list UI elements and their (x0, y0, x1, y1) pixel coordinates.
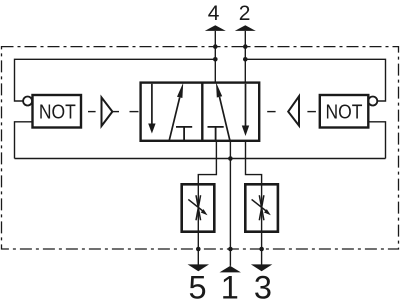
valve V1 body (5/2-way) (141, 83, 260, 141)
valve left chamber plugged port T (176, 127, 192, 141)
pilot wire valve to right amplifier (dashed) (267, 111, 275, 113)
left pilot amplifier triangle (102, 97, 113, 126)
right NOT element U2 (320, 95, 369, 128)
left NOT input circle (23, 97, 32, 106)
port 4 arrow (205, 25, 226, 31)
valve right chamber down-arrow (242, 84, 249, 136)
wire valve to left throttle (198, 141, 216, 185)
pilot wire amplifier to right NOT (dashed) (307, 111, 316, 113)
node port 2 boundary (243, 44, 248, 49)
svg-text:2: 2 (239, 2, 251, 25)
svg-text:5: 5 (189, 270, 207, 300)
wire left throttle to port 5 (197, 232, 199, 265)
right throttle flow line (261, 184, 263, 231)
left throttle restriction X (196, 195, 201, 220)
wire (130, 111, 139, 113)
left throttle flow line (197, 184, 199, 231)
right throttle restriction X (259, 195, 264, 220)
valve chamber divider (201, 83, 203, 141)
svg-text:NOT: NOT (326, 102, 363, 124)
pilot wire amplifier to valve (dashed) (112, 111, 119, 113)
left throttle valve FC1 (182, 184, 215, 231)
wire right throttle to port 3 (261, 232, 263, 265)
valve left chamber down-arrow (148, 84, 155, 134)
supply rail wire (port 1) (15, 158, 386, 160)
node port 3 boundary (259, 247, 264, 252)
node port 2 / right NOT branch (243, 57, 248, 62)
wire port 2 to right NOT input (245, 59, 385, 101)
port 2 arrow (235, 25, 256, 31)
right throttle adjustment arrow (252, 199, 271, 215)
wire port 1 riser (229, 141, 231, 266)
assembly enclosure boundary (dash-dot) (2, 47, 399, 249)
right NOT input circle (368, 97, 377, 106)
wire port 4 to left NOT input (15, 59, 216, 101)
valve right chamber plugged port T (208, 127, 224, 141)
right pilot amplifier triangle (288, 96, 299, 125)
node port 5 boundary (196, 247, 201, 252)
node port 4 boundary (213, 44, 218, 49)
right throttle valve FC2 (245, 184, 278, 231)
valve left chamber diagonal flow arrow (169, 83, 183, 141)
port 5 arrow (188, 264, 209, 271)
wire port 2 to valve (244, 31, 246, 83)
svg-text:NOT: NOT (39, 102, 76, 124)
node supply rail / port 1 (228, 156, 233, 161)
port 1 arrow (220, 266, 241, 273)
left throttle adjustment arrow (188, 199, 207, 215)
node port 1 boundary (228, 247, 233, 252)
svg-text:1: 1 (221, 270, 239, 300)
port 3 arrow (251, 264, 272, 271)
wire left NOT supply to rail (15, 122, 33, 159)
svg-text:3: 3 (254, 270, 272, 300)
wire valve to right throttle (246, 141, 262, 185)
node port 4 / left NOT branch (213, 57, 218, 62)
wire right NOT supply to rail (368, 122, 385, 159)
svg-text:4: 4 (208, 2, 220, 25)
pilot wire left NOT to amplifier (dashed) (88, 111, 96, 113)
valve right chamber diagonal flow arrow (216, 82, 230, 140)
left NOT element U1 (33, 95, 82, 128)
wire port 4 to valve (214, 31, 216, 83)
